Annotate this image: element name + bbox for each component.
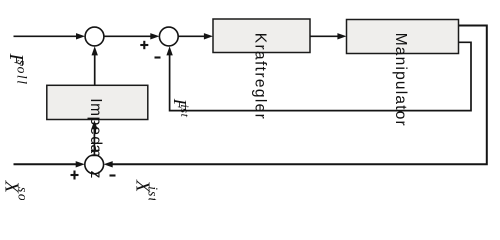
svg-text:Manipulator: Manipulator (392, 33, 409, 126)
svg-text:Kraftregler: Kraftregler (252, 33, 269, 119)
